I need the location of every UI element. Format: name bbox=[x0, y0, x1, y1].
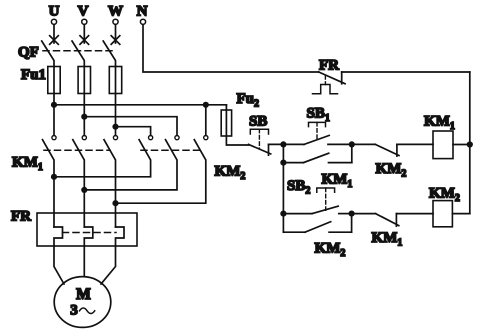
node dot rung1 rejoin bbox=[349, 141, 355, 147]
svg-text:SB2: SB2 bbox=[287, 178, 310, 197]
pushbutton SB (stop, NC) bbox=[249, 144, 271, 154]
FR actuator dashed link bbox=[324, 76, 326, 85]
SB2 actuator bracket bbox=[317, 188, 335, 192]
relay contact FR (NC) bbox=[319, 72, 345, 84]
wire W phase to KM2 pole1 bbox=[116, 127, 151, 136]
svg-text:W: W bbox=[108, 4, 123, 20]
contactor KM2 main pole 1 bbox=[149, 136, 153, 140]
node dot phase U / KM2 out1 bbox=[51, 174, 57, 180]
wire node column bbox=[282, 144, 284, 232]
pushbutton SB1 (start, NO) bbox=[283, 143, 304, 145]
wire KM2 pole3 from U line bbox=[205, 105, 207, 136]
svg-text:KM2: KM2 bbox=[429, 186, 460, 205]
svg-text:KM1: KM1 bbox=[12, 155, 43, 174]
node A top bbox=[280, 141, 286, 147]
motor lead U bbox=[54, 246, 64, 284]
wire V phase to KM2 pole2 bbox=[84, 117, 177, 136]
fuse Fu1 pole 2 bbox=[78, 67, 90, 94]
fuse Fu1 pole 1 bbox=[48, 67, 60, 94]
svg-text:KM2: KM2 bbox=[215, 164, 246, 183]
motor M bbox=[54, 277, 111, 328]
wire U into FR bbox=[53, 177, 55, 227]
contactor KM2 main pole 2 bbox=[175, 136, 179, 140]
contactor KM2 main pole 3 bbox=[204, 136, 208, 140]
wire U phase tap to control (horizontal) bbox=[54, 104, 226, 106]
wire right bus bbox=[469, 72, 471, 214]
contact KM2 aux (self-hold, NO) bbox=[283, 231, 305, 233]
node A lower bbox=[280, 160, 286, 166]
node dot U tap bbox=[51, 102, 57, 108]
node dot phase W / KM2 out3 bbox=[112, 200, 118, 206]
FR heater element 2 bbox=[84, 227, 93, 246]
svg-text:KM2: KM2 bbox=[315, 241, 346, 260]
svg-text:KM1: KM1 bbox=[322, 172, 353, 191]
wire V into FR bbox=[83, 190, 85, 227]
wire rejoin rung2 bbox=[351, 214, 353, 233]
node dot KM2 pole3 top bbox=[203, 102, 209, 108]
linkage KM1 (dashed) bbox=[44, 149, 110, 151]
FR linkage (dashed) bbox=[63, 232, 117, 234]
fuse Fu2 bbox=[221, 110, 231, 136]
wire U terminal to QF bbox=[53, 25, 55, 43]
FR actuator symbol bbox=[313, 85, 338, 94]
svg-text:U: U bbox=[49, 4, 60, 20]
wire W terminal to QF bbox=[115, 25, 117, 43]
wire U fuse to KM1 contact bbox=[53, 94, 55, 136]
svg-text:KM1: KM1 bbox=[372, 230, 403, 249]
SB1 actuator bracket bbox=[309, 122, 326, 126]
svg-text:SB: SB bbox=[249, 114, 267, 130]
contact KM1 aux (self-hold, NO) bbox=[283, 162, 303, 164]
pushbutton SB2 (start, NO) bbox=[283, 213, 312, 215]
svg-text:KM2: KM2 bbox=[376, 161, 407, 180]
breaker QF pole 3 bbox=[111, 36, 120, 45]
node dot coil1 to bus bbox=[467, 141, 473, 147]
motor lead W bbox=[101, 246, 116, 284]
breaker QF pole 1 bbox=[50, 36, 59, 45]
breaker QF pole 2 bbox=[80, 36, 89, 45]
wire V fuse to KM1 contact bbox=[83, 94, 85, 136]
node dot rung2 left bbox=[280, 211, 286, 217]
motor lead V bbox=[83, 246, 85, 277]
coil KM1 bbox=[433, 131, 453, 159]
linkage KM2 (dashed) bbox=[141, 149, 201, 151]
node dot W tap bbox=[112, 124, 118, 130]
FR heater element 1 bbox=[54, 227, 63, 246]
svg-text:FR: FR bbox=[319, 58, 339, 74]
contactor KM1 main pole 3 bbox=[113, 136, 117, 140]
node dot rung2 rejoin bbox=[349, 211, 355, 217]
wire V terminal to QF bbox=[83, 25, 85, 43]
svg-text:N: N bbox=[137, 4, 148, 20]
wire W fuse to KM1 contact bbox=[115, 94, 117, 136]
thermal relay FR box bbox=[37, 213, 137, 246]
svg-text:M: M bbox=[76, 286, 91, 303]
breaker QF linkage (dashed) bbox=[43, 50, 112, 52]
svg-text:QF: QF bbox=[18, 45, 39, 61]
svg-text:SB1: SB1 bbox=[307, 106, 330, 125]
wire N down and across bbox=[143, 25, 319, 72]
node dot V tap bbox=[81, 114, 87, 120]
svg-text:3: 3 bbox=[70, 303, 78, 319]
FR heater element 3 bbox=[116, 227, 125, 246]
svg-text:KM1: KM1 bbox=[424, 114, 455, 133]
contact KM2 interlock (NC) bbox=[352, 143, 376, 145]
svg-text:FR: FR bbox=[11, 209, 31, 225]
wire rejoin rung1 bbox=[351, 144, 353, 162]
SB actuator bracket bbox=[250, 129, 268, 134]
contactor KM1 main pole 1 bbox=[52, 136, 56, 140]
svg-text:V: V bbox=[78, 4, 89, 20]
contact KM1 interlock (NC) bbox=[352, 213, 376, 215]
wire W into FR bbox=[115, 203, 117, 227]
contactor KM1 main pole 2 bbox=[82, 136, 86, 140]
fuse Fu1 pole 3 bbox=[109, 67, 121, 94]
coil KM2 bbox=[433, 201, 452, 227]
svg-text:Fu1: Fu1 bbox=[21, 67, 46, 83]
node dot phase V / KM2 out2 bbox=[81, 187, 87, 193]
svg-text:Fu2: Fu2 bbox=[237, 91, 260, 110]
